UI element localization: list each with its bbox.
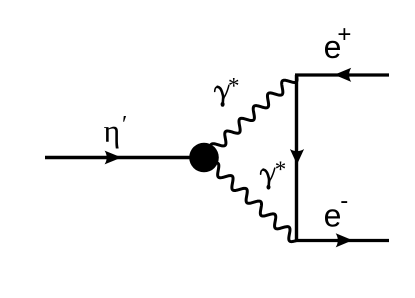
svg-text:e: e xyxy=(324,198,342,234)
arrow on vertical line (down) xyxy=(290,149,304,165)
electron bottom line xyxy=(295,239,389,242)
arrow on top line (left) xyxy=(334,68,351,82)
eta prime incoming line xyxy=(45,156,204,159)
svg-text:-: - xyxy=(340,188,348,215)
svg-text:′: ′ xyxy=(122,112,127,138)
svg-text:*: * xyxy=(275,157,287,182)
lower photon gamma* wavy line xyxy=(203,158,296,242)
label gamma* upper xyxy=(215,74,240,107)
label eta prime xyxy=(104,112,128,149)
arrow on eta prime line xyxy=(105,151,122,165)
upper photon gamma* wavy line xyxy=(204,75,297,159)
svg-text:*: * xyxy=(228,74,240,99)
label e- xyxy=(324,188,349,234)
svg-text:+: + xyxy=(337,21,351,48)
electron internal vertical line xyxy=(295,75,298,241)
positron top line xyxy=(295,73,389,76)
arrow on bottom line (right) xyxy=(336,233,353,247)
label e+ xyxy=(324,21,352,65)
label gamma* lower xyxy=(261,157,287,190)
svg-text:η: η xyxy=(104,113,121,149)
vertex blob xyxy=(189,143,219,173)
